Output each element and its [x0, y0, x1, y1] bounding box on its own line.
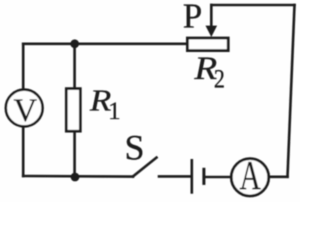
svg-text:1: 1: [108, 98, 121, 125]
svg-text:2: 2: [214, 66, 225, 94]
svg-text:V: V: [13, 93, 37, 129]
svg-text:P: P: [183, 0, 202, 36]
svg-text:S: S: [125, 127, 145, 167]
svg-text:A: A: [240, 152, 261, 198]
